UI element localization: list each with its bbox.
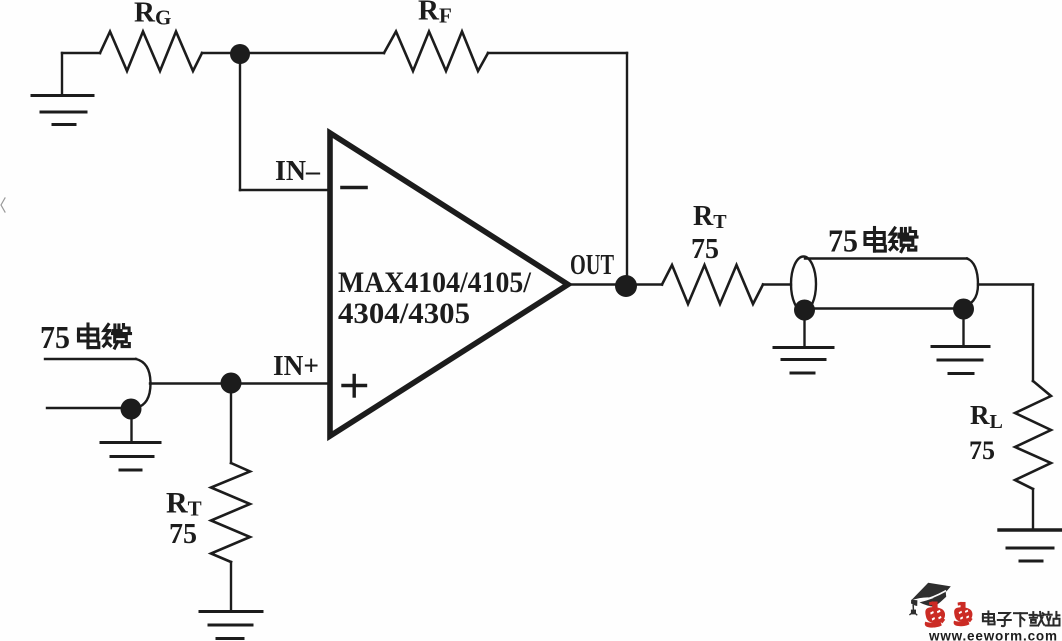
ground symbol (input R_T) — [200, 612, 262, 639]
label 电缆 (output cable, drawn glyphs) — [865, 228, 917, 252]
ground symbol (R_L) — [999, 530, 1061, 561]
wire node A to R_F — [240, 52, 384, 54]
svg-text:MAX4104/4105/: MAX4104/4105/ — [338, 266, 532, 299]
svg-text:RF: RF — [418, 0, 452, 28]
svg-text:RT: RT — [693, 201, 727, 233]
watermark 虫虫 (red) — [925, 601, 973, 627]
svg-text:75: 75 — [828, 224, 858, 259]
output cable left shield junction dot — [794, 300, 815, 321]
op-amp minus sign — [342, 186, 366, 190]
ground symbol (cable right shield) — [932, 318, 989, 374]
svg-text:75: 75 — [969, 436, 995, 465]
svg-text:RT: RT — [166, 487, 202, 521]
ground symbol (cable left shield) — [774, 320, 833, 373]
wire down to R_L — [1032, 285, 1034, 382]
input cable right end-cap arc — [136, 359, 151, 408]
wire node A down to IN- — [239, 53, 241, 190]
input cable shield junction dot — [121, 399, 142, 420]
svg-text:OUT: OUT — [570, 250, 614, 281]
svg-text:75: 75 — [691, 234, 719, 265]
svg-text:IN–: IN– — [275, 156, 321, 187]
svg-text:75: 75 — [169, 519, 197, 550]
resistor R_T (input termination, vertical) — [211, 463, 250, 562]
svg-text:RL: RL — [970, 400, 1003, 433]
resistor R_G — [100, 32, 202, 72]
OUT node junction dot — [615, 275, 637, 297]
wire R_F to top-right corner — [488, 52, 627, 54]
wire R_G to node A — [202, 52, 240, 54]
wire op-amp OUT to R_T — [568, 283, 662, 285]
svg-text:75: 75 — [40, 320, 70, 355]
output cable body top line — [805, 257, 967, 259]
wire feedback vertical (right) — [626, 53, 628, 285]
label 电缆 (input cable, drawn glyphs) — [79, 324, 131, 348]
watermark text 电子下载站 — [983, 611, 1060, 626]
op-amp U1 triangle — [330, 133, 568, 436]
svg-text:IN+: IN+ — [273, 351, 319, 382]
wire R_L to ground — [1032, 489, 1034, 529]
ground symbol (input cable shield) — [101, 419, 160, 470]
op-amp plus sign — [343, 376, 366, 397]
wire cable to R_L corner — [978, 283, 1033, 285]
output cable right end-cap arc — [956, 259, 978, 309]
node A junction dot — [230, 44, 250, 64]
watermark graduation cap — [910, 583, 951, 615]
wire 75-cable to IN+ node — [150, 382, 330, 384]
ground symbol (top-left, R_G input) — [32, 53, 93, 125]
wire to IN- pin — [240, 189, 328, 191]
svg-text:www.eeworm.com: www.eeworm.com — [928, 629, 1057, 641]
wire IN+ node down to R_T — [230, 393, 232, 463]
IN+ node junction dot — [221, 373, 242, 394]
wire ground to R_G — [62, 52, 100, 54]
input cable shield bottom line — [47, 407, 122, 409]
wire R_T to ground — [230, 562, 232, 611]
svg-text:4304/4305: 4304/4305 — [338, 297, 470, 330]
svg-text:RG: RG — [134, 0, 171, 30]
output cable body bottom line — [805, 307, 956, 309]
wire R_T to output cable — [763, 283, 791, 285]
resistor R_L (vertical) — [1015, 381, 1051, 489]
resistor R_F — [384, 32, 488, 72]
stray mark left edge — [1, 198, 5, 212]
output cable right shield junction dot — [953, 299, 974, 320]
resistor R_T (output series 75) — [662, 265, 763, 304]
output cable left end-cap ellipse — [791, 257, 816, 312]
input cable shield top line — [45, 358, 136, 360]
